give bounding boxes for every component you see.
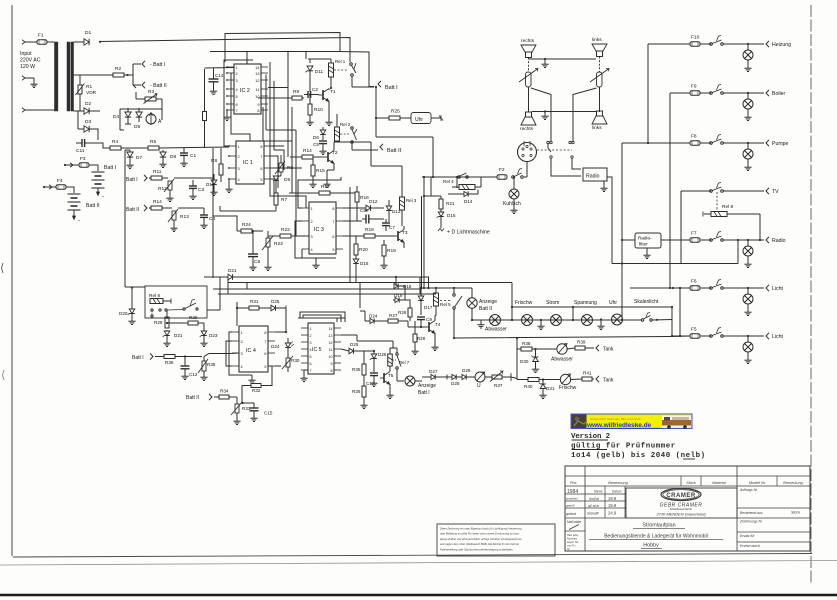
- svg-text:R28: R28: [417, 336, 426, 341]
- ground speaker bottom common: [541, 112, 548, 120]
- svg-text:T2: T2: [332, 150, 338, 156]
- svg-text:D4: D4: [113, 114, 119, 120]
- svg-text:D24: D24: [271, 344, 280, 349]
- svg-text:R7: R7: [281, 197, 287, 203]
- wire IC2 mid bus: [210, 52, 374, 87]
- note Pruefnummer range: [571, 452, 706, 460]
- relay Rel 3: [400, 190, 417, 226]
- svg-text:geänd: geänd: [566, 512, 577, 516]
- svg-text:projektiert: projektiert: [565, 497, 578, 501]
- capacitor C2: [304, 87, 318, 98]
- capacitor C3: [189, 180, 204, 200]
- svg-text:IC 3: IC 3: [314, 227, 324, 233]
- transistor T4: [425, 316, 441, 351]
- diode D24 row: [365, 314, 388, 324]
- svg-text:D8: D8: [170, 154, 176, 160]
- svg-text:13: 13: [255, 72, 259, 76]
- svg-text:Batt I: Batt I: [385, 85, 398, 91]
- capacitor C8: [248, 231, 260, 271]
- ground lamp row b: [597, 318, 604, 329]
- title block header texts: [570, 481, 804, 485]
- svg-text:- Batt I: - Batt I: [150, 62, 165, 68]
- wire IC2 top feed: [246, 52, 248, 65]
- svg-text:R21: R21: [446, 201, 455, 206]
- svg-text:Rel 1: Rel 1: [335, 59, 346, 64]
- switch Rel4 contact: [458, 173, 468, 178]
- svg-text:Anzeige: Anzeige: [418, 383, 436, 389]
- svg-text:Frischw: Frischw: [515, 300, 533, 306]
- svg-text:T3: T3: [402, 230, 408, 236]
- ic IC4 pins right: [264, 331, 275, 369]
- svg-text:Kuhlsch: Kuhlsch: [503, 201, 521, 207]
- svg-text:6: 6: [264, 352, 266, 356]
- wire IC1 surround: [213, 141, 284, 278]
- speaker rechts top: [521, 45, 536, 58]
- svg-text:1: 1: [238, 145, 240, 149]
- svg-text:Batt II: Batt II: [86, 203, 100, 209]
- ammeter A: [146, 113, 162, 126]
- svg-text:D21: D21: [174, 333, 183, 338]
- wire speaker top common: [529, 58, 597, 60]
- svg-text:5: 5: [310, 355, 312, 359]
- relay Rel 6 coil: [150, 299, 171, 304]
- svg-text:Diese Zeichnung ist unser Eige: Diese Zeichnung ist unser Eigentum (auch…: [440, 527, 522, 531]
- wire top bus to relay Rel1: [100, 38, 350, 63]
- wire choke links down: [599, 87, 601, 112]
- svg-text:Km£af: Km£af: [589, 497, 600, 501]
- svg-text:R29: R29: [189, 315, 198, 320]
- wire routing jogs: [263, 88, 306, 209]
- resistor R38: [521, 341, 556, 351]
- svg-text:rechts: rechts: [521, 38, 535, 44]
- svg-text:lässig strafbar und wird gerüc: lässig strafbar und wird gerüchtlich ver…: [440, 537, 522, 541]
- svg-text:D21: D21: [228, 268, 237, 273]
- svg-text:IC 2: IC 2: [240, 88, 250, 94]
- zener D11: [306, 66, 324, 92]
- wire choke feed rechts dashed: [528, 58, 530, 73]
- page edge line: [0, 561, 837, 566]
- resistor R18: [343, 227, 394, 238]
- svg-text:geprüft: geprüft: [566, 504, 575, 508]
- switch Rel5 contact: [453, 287, 462, 339]
- wire licht bus verticals: [671, 287, 681, 337]
- wire choke feed links dashed: [599, 57, 601, 73]
- svg-text:Stück: Stück: [686, 481, 697, 485]
- svg-text:D12: D12: [369, 199, 378, 204]
- svg-text:F8: F8: [691, 134, 697, 140]
- title block drawing title: [589, 523, 723, 549]
- capacitor C15: [241, 402, 272, 422]
- note disclaimer box: [437, 524, 555, 556]
- fuse row Heizung F10: [648, 35, 791, 72]
- svg-text:14: 14: [329, 327, 333, 331]
- svg-text:Maßstäbe: Maßstäbe: [567, 520, 581, 524]
- svg-text:Metallwarenfabrik: Metallwarenfabrik: [670, 507, 693, 511]
- svg-text:C5: C5: [313, 142, 319, 147]
- svg-text:Batt II: Batt II: [126, 207, 139, 213]
- connector DIN socket: [518, 141, 537, 177]
- resistor R20: [354, 236, 368, 259]
- svg-text:R39: R39: [577, 340, 586, 345]
- wire IC2 outer loop: [223, 60, 270, 121]
- capacitor C14: [205, 68, 235, 95]
- svg-text:6: 6: [310, 362, 312, 366]
- wire bus y282: [228, 283, 512, 321]
- wire R27 to T4: [407, 321, 409, 327]
- varresistor R3: [136, 89, 162, 109]
- svg-text:1: 1: [311, 207, 313, 211]
- svg-text:2: 2: [236, 72, 238, 76]
- wire F3 to battery I: [89, 165, 116, 171]
- speaker rechts bottom: [520, 112, 536, 132]
- svg-text:Batt I: Batt I: [132, 355, 144, 361]
- svg-text:D3: D3: [85, 119, 91, 125]
- svg-text:R23: R23: [274, 241, 283, 247]
- svg-text:R5: R5: [150, 139, 156, 145]
- svg-text:R17: R17: [321, 184, 330, 190]
- svg-text:12: 12: [329, 341, 333, 345]
- capacitor C12: [181, 357, 198, 380]
- wire IC1 pin5 down: [271, 179, 274, 196]
- wire T1 collector: [329, 77, 332, 90]
- diode D16: [353, 259, 369, 282]
- svg-text:R15: R15: [316, 168, 325, 174]
- svg-text:4: 4: [238, 178, 240, 182]
- svg-text:C9: C9: [426, 317, 432, 322]
- terminal Batt II input: [126, 205, 151, 213]
- svg-text:Bemerkung: Bemerkung: [783, 481, 803, 485]
- transistor T5: [380, 366, 394, 399]
- svg-text:2: 2: [238, 155, 240, 159]
- svg-text:19.9: 19.9: [608, 496, 617, 501]
- svg-text:C14: C14: [215, 73, 224, 78]
- resistor R35 mid: [352, 351, 366, 375]
- svg-text:Input: Input: [20, 51, 32, 57]
- wire IC3 pin7 row: [343, 220, 362, 222]
- svg-text:9: 9: [257, 103, 259, 107]
- ground IC4: [248, 375, 255, 384]
- svg-text:Bedienungsblende & Ladegerät f: Bedienungsblende & Ladegerät für Wohnmob…: [604, 534, 708, 540]
- wire speaker bottom common: [532, 110, 596, 112]
- terminal Tank 1: [596, 345, 614, 353]
- svg-text:F2: F2: [499, 167, 505, 173]
- wire R4-R5: [121, 147, 148, 149]
- node after D1: [99, 41, 101, 43]
- drawing border right: [810, 5, 812, 585]
- potentiometer Frischw sensor: [543, 374, 582, 391]
- svg-text:F7: F7: [691, 231, 697, 237]
- terminal Batt I tap: [142, 61, 165, 68]
- box Radio: [583, 168, 607, 181]
- note gueltig fuer Pruefnummer: [571, 443, 676, 451]
- wire indicator feed y307: [511, 306, 673, 320]
- svg-text:D23: D23: [209, 333, 218, 338]
- svg-text:Licht: Licht: [772, 286, 784, 292]
- svg-text:8: 8: [332, 207, 334, 211]
- resistor R10: [306, 93, 323, 125]
- wire right bus x670: [669, 93, 671, 289]
- diode D25 upper: [271, 299, 286, 316]
- varresistor R35 low: [198, 357, 216, 381]
- svg-text:D16: D16: [360, 261, 369, 266]
- diode D10: [206, 174, 218, 196]
- svg-text:D1: D1: [85, 30, 91, 36]
- svg-text:Spannung: Spannung: [574, 300, 597, 306]
- svg-text:F4: F4: [57, 178, 63, 184]
- svg-text:Abwasser: Abwasser: [485, 327, 507, 333]
- svg-text:Wohnmobil, Mountain Bike und m: Wohnmobil, Mountain Bike und mehr ...: [590, 417, 644, 421]
- svg-text:C11: C11: [76, 148, 85, 154]
- resistor R16: [355, 186, 369, 221]
- varresistor R12: [158, 178, 174, 202]
- svg-text:Benennung: Benennung: [608, 481, 628, 485]
- box Radio-filter: [635, 233, 661, 259]
- ground lamp row a: [537, 319, 544, 330]
- svg-text:4: 4: [311, 248, 313, 252]
- svg-text:8: 8: [331, 369, 333, 373]
- battery Batt II: [68, 194, 100, 224]
- logo CRAMER: [661, 489, 701, 501]
- wire T4 base row: [408, 326, 425, 328]
- svg-text:6: 6: [332, 235, 334, 239]
- svg-text:links: links: [592, 125, 602, 131]
- svg-text:R12: R12: [158, 186, 167, 192]
- wire IC5 loops: [298, 312, 345, 322]
- svg-text:8: 8: [260, 145, 262, 149]
- page bottom dark line: [0, 594, 837, 597]
- capacitor C1: [180, 148, 196, 167]
- meter U: [475, 372, 492, 389]
- wire Batt I row to C1: [174, 177, 213, 179]
- label Input 220V AC 120 W: [20, 51, 41, 70]
- zener D26: [364, 350, 387, 372]
- svg-text:R11: R11: [153, 169, 162, 175]
- wire bus y289: [213, 288, 422, 290]
- svg-text:D25: D25: [350, 342, 359, 347]
- svg-text:Hobby: Hobby: [643, 543, 659, 549]
- svg-text:D7: D7: [136, 155, 142, 161]
- svg-text:C3: C3: [198, 187, 204, 193]
- svg-text:F9: F9: [691, 84, 697, 90]
- svg-text:Skalenlicht: Skalenlicht: [634, 299, 659, 305]
- svg-text:R35: R35: [352, 367, 361, 372]
- page edge mark a: [2, 263, 4, 273]
- svg-text:D15: D15: [447, 213, 456, 218]
- svg-text:C2: C2: [312, 87, 318, 92]
- wire C11 to R4 row: [98, 143, 110, 148]
- svg-text:D25: D25: [271, 299, 280, 304]
- svg-text:Rel 4: Rel 4: [443, 179, 454, 184]
- svg-text:D17: D17: [424, 305, 433, 310]
- lamp Spannung: [574, 300, 597, 326]
- wire TV dashed to Rel8: [716, 192, 718, 211]
- svg-text:Sœwälf: Sœwälf: [587, 512, 600, 516]
- relay Rel 5: [434, 288, 452, 316]
- wire F2 switch up: [524, 176, 527, 178]
- zener D20: [119, 286, 136, 324]
- svg-text:F5: F5: [691, 327, 697, 333]
- svg-text:+ D Lichtmaschine: + D Lichtmaschine: [447, 230, 490, 236]
- svg-text:D14: D14: [464, 199, 473, 204]
- svg-text:F6: F6: [691, 279, 697, 285]
- transistor T2: [324, 146, 338, 170]
- svg-text:1984: 1984: [567, 489, 578, 495]
- resistor R28: [154, 317, 169, 328]
- ic IC2 pins left: [226, 66, 238, 113]
- svg-text:10: 10: [329, 355, 333, 359]
- svg-text:Frischw: Frischw: [559, 385, 577, 391]
- svg-text:6: 6: [236, 103, 238, 107]
- note Version 2: [571, 433, 610, 441]
- diode D8: [159, 150, 176, 168]
- svg-text:Zeichnungs Nr: Zeichnungs Nr: [739, 520, 763, 524]
- wire transformer top to D1: [74, 41, 85, 43]
- switch F2: [512, 169, 524, 179]
- svg-text:R24: R24: [242, 222, 251, 228]
- svg-text:Radio: Radio: [586, 174, 600, 180]
- terminal Batt I sense: [132, 353, 164, 361]
- svg-text:D26: D26: [378, 352, 387, 357]
- wire R31 feed: [236, 302, 249, 326]
- switch Rel6 a: [151, 309, 153, 317]
- svg-text:VDR: VDR: [86, 90, 97, 96]
- svg-text:R36: R36: [165, 360, 174, 365]
- title block company texts: [656, 503, 706, 517]
- svg-text:3: 3: [236, 79, 238, 83]
- svg-text:2: 2: [310, 334, 312, 338]
- resistor R24: [237, 222, 263, 233]
- svg-text:D27: D27: [429, 369, 438, 374]
- svg-text:5: 5: [332, 248, 334, 252]
- svg-text:C4: C4: [209, 216, 215, 222]
- resistor R32: [242, 366, 272, 403]
- ic IC4 pins left: [232, 331, 243, 369]
- switch Rel 7 contact: [393, 353, 410, 369]
- terminal Batt II tap: [142, 82, 167, 89]
- ic IC2: [234, 64, 261, 114]
- svg-text:Material: Material: [712, 481, 726, 485]
- wire Rel1 switch to Batt I: [352, 77, 377, 89]
- wire vertical x228: [227, 277, 229, 294]
- resistor R14: [151, 199, 162, 210]
- svg-text:Licht: Licht: [772, 334, 784, 340]
- svg-text:R36: R36: [352, 389, 361, 394]
- speaker links top: [592, 44, 607, 57]
- resistor R15: [309, 157, 325, 188]
- svg-text:Heizung: Heizung: [772, 42, 791, 48]
- wire Rel2 dashes: [340, 133, 349, 135]
- svg-text:Boiler: Boiler: [772, 91, 786, 97]
- wire IC1 pin7 right: [271, 156, 278, 188]
- input terminal 3: [22, 108, 55, 112]
- svg-text:7: 7: [260, 155, 262, 159]
- label speaker links top: [592, 37, 602, 43]
- svg-text:R35: R35: [207, 362, 216, 367]
- svg-text:Tank: Tank: [603, 347, 614, 353]
- svg-text:12: 12: [255, 79, 259, 83]
- svg-text:1: 1: [241, 331, 243, 335]
- resistor R5: [148, 139, 159, 150]
- wire connector pin a: [548, 144, 551, 152]
- ic IC4: [239, 326, 268, 372]
- wire R9 row: [258, 97, 292, 99]
- svg-text:C15: C15: [264, 411, 273, 416]
- svg-text:7: 7: [332, 220, 334, 224]
- resistor R40: [524, 378, 544, 390]
- svg-text:1: 1: [310, 327, 312, 331]
- svg-text:14: 14: [255, 66, 259, 70]
- transistor T3: [394, 226, 408, 248]
- wire choke rechts down: [528, 87, 530, 112]
- wire IC3 loop: [295, 177, 341, 258]
- svg-text:Radio-: Radio-: [638, 236, 652, 241]
- ground radio: [600, 181, 607, 192]
- potentiometer Abwasser sensor: [551, 344, 575, 363]
- svg-text:Rel 5: Rel 5: [440, 302, 451, 307]
- lamp Anzeige Batt II: [467, 288, 497, 320]
- wire D18 to D19: [399, 286, 405, 300]
- svg-text:setz gegen den unbel. Wettbewe: setz gegen den unbel. Wettbewerb BGB) Al…: [440, 542, 519, 546]
- wire radiofilter leads: [622, 239, 690, 241]
- svg-text:R40: R40: [524, 384, 533, 389]
- diode D13: [386, 200, 401, 222]
- wire vertical x420: [419, 277, 421, 294]
- lamp Strom: [546, 300, 562, 326]
- wire Rel4 vertical a: [423, 176, 425, 289]
- capacitor C5: [313, 141, 327, 155]
- ic IC3 pins left: [302, 207, 313, 252]
- wire Rel3 top feed: [334, 142, 402, 190]
- svg-text:1: 1: [236, 66, 238, 70]
- diode D9: [273, 172, 290, 183]
- svg-text:R8: R8: [211, 158, 217, 164]
- svg-text:R16: R16: [360, 195, 369, 201]
- svg-text:Anzeige: Anzeige: [479, 299, 497, 305]
- varresistor R13: [162, 208, 189, 232]
- wire IC3 gnd: [312, 258, 319, 269]
- resistor R36 low: [164, 355, 202, 366]
- svg-text:Stromlaufplan: Stromlaufplan: [642, 523, 675, 529]
- wire Rel6 exits: [167, 277, 220, 319]
- svg-text:F10: F10: [691, 35, 700, 41]
- fuse row Licht F6: [630, 279, 784, 316]
- svg-text:6: 6: [260, 167, 262, 171]
- svg-text:8: 8: [264, 331, 266, 335]
- svg-text:220V AC: 220V AC: [20, 58, 41, 64]
- svg-text:R14: R14: [303, 148, 312, 154]
- svg-text:R28: R28: [154, 320, 163, 325]
- input terminal 2: [22, 76, 38, 88]
- svg-text:IC 1: IC 1: [243, 160, 253, 166]
- svg-text:2: 2: [241, 340, 243, 344]
- wire T1 emitter: [325, 102, 332, 126]
- title block right column texts: [739, 488, 800, 548]
- capacitor C13: [366, 373, 378, 387]
- svg-text:links: links: [592, 37, 602, 43]
- resistor R22: [268, 227, 309, 238]
- svg-text:5: 5: [260, 178, 262, 182]
- svg-text:R19: R19: [387, 248, 396, 254]
- svg-text:24.9: 24.9: [608, 511, 617, 516]
- varresistor R30: [275, 352, 300, 372]
- capacitor C4: [200, 209, 215, 229]
- wire bus y294: [218, 293, 436, 295]
- svg-text:R32: R32: [252, 388, 261, 393]
- svg-text:TV: TV: [772, 189, 779, 195]
- svg-text:R41: R41: [583, 371, 592, 376]
- wire to Batt I tap: [133, 63, 141, 65]
- wire Batt II row to C4: [178, 208, 204, 209]
